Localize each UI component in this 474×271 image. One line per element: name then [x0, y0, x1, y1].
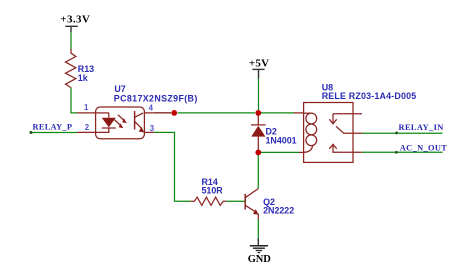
- svg-text:1N4001: 1N4001: [266, 135, 297, 145]
- svg-text:2: 2: [85, 123, 90, 132]
- svg-text:+3.3V: +3.3V: [60, 13, 90, 25]
- svg-text:PC817X2NSZ9F(B): PC817X2NSZ9F(B): [114, 93, 198, 103]
- svg-text:GND: GND: [248, 254, 272, 265]
- svg-text:+5V: +5V: [249, 57, 269, 69]
- svg-text:3: 3: [150, 124, 155, 133]
- svg-text:RELAY_P: RELAY_P: [33, 123, 73, 132]
- svg-text:2N2222: 2N2222: [263, 206, 294, 216]
- svg-text:RELAY_IN: RELAY_IN: [399, 123, 444, 132]
- svg-text:4: 4: [149, 103, 154, 112]
- svg-text:RELE RZ03-1A4-D005: RELE RZ03-1A4-D005: [322, 91, 417, 101]
- svg-text:510R: 510R: [202, 186, 224, 196]
- svg-text:1k: 1k: [78, 73, 88, 83]
- svg-text:1: 1: [84, 103, 89, 112]
- svg-text:AC_N_OUT: AC_N_OUT: [400, 143, 447, 152]
